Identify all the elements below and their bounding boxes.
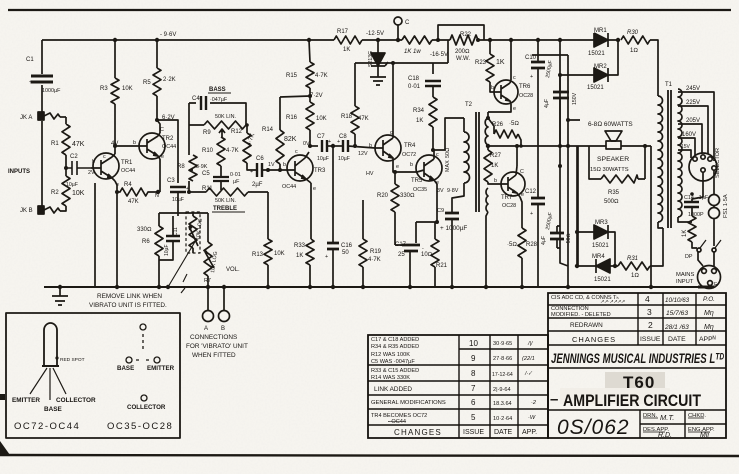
svg-text:MR3: MR3 bbox=[595, 220, 608, 226]
svg-text:1Ω: 1Ω bbox=[630, 48, 638, 54]
svg-text:6: 6 bbox=[471, 398, 476, 407]
svg-text:- 9·6V: - 9·6V bbox=[160, 32, 176, 38]
svg-text:10µF: 10µF bbox=[317, 156, 329, 162]
svg-text:TR2: TR2 bbox=[162, 136, 174, 142]
transformer T2 core bbox=[476, 112, 479, 212]
svg-text:C: C bbox=[405, 20, 410, 26]
capacitor 4uF 150V upper bbox=[553, 92, 569, 98]
capacitor 4uF 150V lower bbox=[550, 233, 564, 239]
svg-text:500Ω: 500Ω bbox=[604, 199, 619, 205]
svg-text:15V: 15V bbox=[681, 144, 691, 150]
svg-text:50Ω: 50Ω bbox=[445, 148, 451, 158]
svg-text:EMITTER: EMITTER bbox=[12, 397, 40, 404]
svg-text:1K: 1K bbox=[682, 230, 688, 237]
capacitor C5 0.01uF bbox=[213, 177, 229, 181]
svg-text:-12·5V: -12·5V bbox=[366, 31, 384, 37]
svg-text:LINK ADDED: LINK ADDED bbox=[374, 386, 412, 393]
resistor R18 47K bbox=[351, 63, 359, 146]
resistor R1 47K bbox=[62, 117, 70, 168]
svg-text:R14 WAS 330K: R14 WAS 330K bbox=[371, 375, 410, 381]
svg-text:M.T.: M.T. bbox=[660, 413, 674, 422]
svg-text:330Ω: 330Ω bbox=[137, 227, 152, 233]
svg-text:R12 WAS 100K: R12 WAS 100K bbox=[371, 352, 410, 358]
svg-text:ISSUE: ISSUE bbox=[463, 429, 484, 436]
wire: TR5 emitter link to C17/R21 bbox=[416, 222, 437, 243]
svg-text:+: + bbox=[530, 74, 533, 80]
wire: speaker feed bbox=[568, 120, 651, 287]
resistor R16 10K bbox=[306, 96, 314, 146]
svg-text:10K: 10K bbox=[72, 190, 85, 197]
svg-text:b: b bbox=[283, 162, 286, 168]
ground symbol bbox=[52, 287, 68, 305]
potentiometer 10K LOG vibrato (dashed) bbox=[186, 212, 200, 253]
svg-text:OC28: OC28 bbox=[502, 203, 516, 209]
svg-text:e: e bbox=[521, 192, 524, 198]
mains input connector bbox=[698, 266, 721, 289]
svg-text:47K: 47K bbox=[72, 141, 85, 148]
svg-text:MR4: MR4 bbox=[592, 254, 605, 260]
svg-text:50K LIN.: 50K LIN. bbox=[215, 198, 236, 204]
svg-text:JENNINGS MUSICAL INDUSTRIES Lᵀ: JENNINGS MUSICAL INDUSTRIES Lᵀᴰ bbox=[551, 351, 724, 366]
svg-text:27·8·66: 27·8·66 bbox=[493, 356, 512, 362]
svg-text:MR2: MR2 bbox=[594, 64, 607, 70]
resistor R4 47K horizontal bbox=[117, 188, 158, 196]
resistor R34 1K bbox=[429, 97, 437, 150]
svg-text:GENERAL MODIFICATIONS: GENERAL MODIFICATIONS bbox=[371, 400, 446, 406]
wire: selector wiper to C14 bbox=[692, 172, 703, 202]
svg-text:c: c bbox=[513, 75, 516, 81]
svg-text:TR3: TR3 bbox=[314, 168, 326, 174]
corner mark bbox=[0, 441, 10, 455]
svg-text:3: 3 bbox=[647, 307, 652, 317]
svg-text:Mƞ: Mƞ bbox=[704, 310, 714, 317]
svg-text:R8: R8 bbox=[177, 164, 185, 170]
svg-text:TR6: TR6 bbox=[519, 84, 531, 90]
svg-text:P.O.: P.O. bbox=[703, 296, 715, 303]
svg-text:CHANGES: CHANGES bbox=[394, 428, 442, 437]
svg-text:MODIFIED. - DELETED: MODIFIED. - DELETED bbox=[551, 312, 611, 318]
title block right bbox=[548, 293, 726, 438]
svg-text:REMOVE LINK WHEN: REMOVE LINK WHEN bbox=[97, 293, 162, 300]
svg-text:18.3.64: 18.3.64 bbox=[493, 401, 512, 407]
svg-text:10µF: 10µF bbox=[164, 245, 170, 257]
svg-text:OC35-OC28: OC35-OC28 bbox=[107, 421, 173, 432]
svg-text:·1µF: ·1µF bbox=[697, 195, 709, 201]
svg-text:C1: C1 bbox=[26, 57, 34, 63]
svg-text:5: 5 bbox=[471, 413, 476, 422]
svg-text:245V: 245V bbox=[686, 86, 700, 92]
svg-text:e: e bbox=[116, 182, 119, 188]
capacitor C12 2500uF bbox=[531, 198, 545, 204]
svg-text:15021: 15021 bbox=[594, 277, 611, 283]
wire: speaker line bbox=[578, 145, 651, 147]
svg-text:e: e bbox=[161, 154, 164, 160]
node junction R1/R2 bbox=[64, 166, 68, 170]
svg-text:TR7: TR7 bbox=[501, 195, 513, 201]
resistor R31 1ohm bbox=[618, 228, 663, 270]
svg-text:c: c bbox=[103, 154, 106, 160]
svg-text:R11: R11 bbox=[202, 186, 213, 192]
svg-text:1K: 1K bbox=[296, 253, 303, 259]
resistor R8 3.9K bbox=[189, 155, 197, 181]
svg-text:·5Ω: ·5Ω bbox=[509, 121, 519, 127]
svg-text:R34 & R35 ADDED: R34 & R35 ADDED bbox=[371, 344, 419, 350]
svg-text:c: c bbox=[436, 152, 439, 158]
transistor TR3 OC44 bbox=[287, 155, 313, 181]
capacitor C18 0.01 bbox=[425, 81, 441, 86]
capacitor C16 50 bbox=[327, 243, 339, 249]
resistor 1K mains bbox=[688, 216, 697, 248]
svg-text:DP: DP bbox=[685, 254, 693, 260]
capacitor C14 .1uF bbox=[684, 202, 699, 207]
svg-text:10K: 10K bbox=[122, 86, 133, 92]
svg-text:FOR 'VIBRATO' UNIT: FOR 'VIBRATO' UNIT bbox=[186, 343, 248, 350]
wire: lower-left network top bus bbox=[159, 213, 208, 242]
svg-text:JK B: JK B bbox=[20, 208, 33, 214]
svg-text:1K: 1K bbox=[343, 47, 350, 53]
resistor R5 2.2K bbox=[153, 40, 161, 120]
selector switch bbox=[689, 153, 717, 181]
svg-text:TREBLE: TREBLE bbox=[213, 206, 237, 212]
resistor R22 200ohm bbox=[450, 35, 478, 45]
svg-text:VIBRATO UNIT IS FITTED.: VIBRATO UNIT IS FITTED. bbox=[89, 302, 167, 309]
transformer T2 primary lower coil bbox=[486, 188, 488, 287]
sheet top border bbox=[8, 9, 731, 11]
svg-text:↗↗·↗↗↗↗: ↗↗·↗↗↗↗ bbox=[600, 299, 625, 304]
svg-text:C6: C6 bbox=[256, 156, 264, 162]
svg-text:4·7K: 4·7K bbox=[368, 257, 381, 263]
svg-text:4: 4 bbox=[645, 294, 650, 304]
svg-text:1K: 1K bbox=[416, 118, 423, 124]
resistor R15 4.7K bbox=[306, 40, 314, 96]
svg-text:b: b bbox=[369, 143, 372, 149]
svg-text:7: 7 bbox=[471, 384, 476, 393]
svg-text:OC44: OC44 bbox=[162, 144, 176, 150]
svg-text:15021: 15021 bbox=[592, 243, 609, 249]
svg-text:C11: C11 bbox=[173, 227, 179, 236]
svg-text:205V: 205V bbox=[686, 118, 700, 124]
svg-text:9·8V: 9·8V bbox=[447, 188, 459, 194]
svg-text:c: c bbox=[295, 149, 298, 155]
svg-text:COLLECTOR: COLLECTOR bbox=[56, 397, 96, 404]
svg-text:1000P: 1000P bbox=[688, 212, 704, 218]
resistor R6 330ohm bbox=[155, 226, 163, 287]
svg-text:+: + bbox=[325, 254, 328, 260]
capacitor C11 10uF bbox=[166, 236, 180, 241]
svg-text:T2: T2 bbox=[465, 102, 473, 108]
svg-text:4V: 4V bbox=[111, 141, 118, 147]
transistor case outline OC72 bbox=[44, 323, 57, 366]
svg-text:150V: 150V bbox=[572, 92, 578, 105]
svg-text:2µF: 2µF bbox=[252, 182, 263, 188]
svg-text:DATE: DATE bbox=[494, 429, 512, 436]
resistor R21 10ohm bbox=[431, 222, 439, 287]
svg-text:T1: T1 bbox=[665, 82, 673, 88]
svg-text:R14: R14 bbox=[262, 127, 274, 133]
svg-text:+: + bbox=[530, 211, 533, 217]
switch DP bbox=[697, 248, 701, 252]
svg-text:CHANGES: CHANGES bbox=[572, 335, 616, 344]
svg-text:3·9K: 3·9K bbox=[196, 164, 208, 170]
svg-text:EMITTER: EMITTER bbox=[147, 365, 175, 372]
diode MR2 bbox=[560, 40, 618, 82]
svg-text:e: e bbox=[313, 186, 316, 192]
svg-text:R31: R31 bbox=[627, 256, 638, 262]
svg-text:10·2·64: 10·2·64 bbox=[493, 416, 512, 422]
svg-text:1V: 1V bbox=[268, 162, 275, 168]
svg-text:10K: 10K bbox=[316, 116, 327, 122]
svg-text:B: B bbox=[221, 326, 225, 332]
svg-text:2V: 2V bbox=[88, 170, 95, 176]
svg-text:R18: R18 bbox=[341, 114, 353, 120]
svg-text:c: c bbox=[390, 130, 393, 136]
svg-text:C: C bbox=[520, 169, 524, 175]
svg-text:C4: C4 bbox=[192, 96, 200, 102]
svg-text:R26: R26 bbox=[492, 122, 504, 128]
transistor TR1 OC44 bbox=[93, 153, 119, 179]
svg-text:+: + bbox=[250, 169, 253, 175]
svg-text:28/1 /63: 28/1 /63 bbox=[664, 324, 689, 331]
svg-text:Mƞ: Mƞ bbox=[704, 324, 714, 331]
svg-text:200Ω: 200Ω bbox=[455, 49, 470, 55]
transformer T1 core bbox=[668, 90, 671, 228]
wire: TR1 collector up to R3, and to TR2 base bbox=[115, 104, 139, 154]
svg-text:R5: R5 bbox=[143, 80, 151, 86]
svg-text:R19: R19 bbox=[370, 249, 382, 255]
wire: ground rail bbox=[44, 286, 708, 288]
ground under zener bbox=[370, 77, 386, 85]
svg-text:TR1: TR1 bbox=[121, 160, 133, 166]
svg-text:DATE: DATE bbox=[668, 336, 686, 343]
svg-text:6·2V: 6·2V bbox=[162, 115, 175, 121]
capacitor C7 10uF bbox=[322, 140, 327, 152]
transformer T1 primary coil bbox=[658, 96, 663, 222]
terminal B bbox=[223, 287, 225, 311]
svg-text:INPUTS: INPUTS bbox=[8, 169, 30, 175]
zener diode 12.5V bbox=[371, 40, 388, 77]
svg-text:0S/062: 0S/062 bbox=[557, 416, 630, 439]
svg-text:b: b bbox=[133, 140, 136, 146]
svg-text:R3: R3 bbox=[100, 86, 108, 92]
leads bbox=[30, 368, 66, 400]
svg-text:1K: 1K bbox=[491, 163, 498, 169]
svg-text:15Ω 30WATTS: 15Ω 30WATTS bbox=[590, 167, 629, 173]
capacitor C8 10uF bbox=[343, 140, 348, 152]
svg-text:· OC44: · OC44 bbox=[388, 419, 406, 425]
svg-text:30·9·65: 30·9·65 bbox=[493, 341, 512, 347]
wire: TR7 emitter to R28 bbox=[520, 197, 522, 228]
svg-text:R12: R12 bbox=[231, 129, 243, 135]
svg-text:1K 1w: 1K 1w bbox=[404, 49, 421, 55]
svg-text:VOL.: VOL. bbox=[226, 267, 240, 273]
resistor R20 330ohm bbox=[391, 184, 399, 245]
svg-text:A: A bbox=[204, 326, 208, 332]
pinout view OC35 bbox=[140, 324, 146, 330]
sheet bottom border bbox=[0, 455, 739, 456]
svg-text:R13: R13 bbox=[252, 252, 264, 258]
svg-text:3V: 3V bbox=[437, 188, 444, 194]
wire: tone stack left feed bbox=[189, 103, 246, 192]
resistor R14 82K bbox=[276, 130, 284, 170]
svg-text:9: 9 bbox=[471, 354, 476, 363]
wire: TR2 emitter down to N node bbox=[159, 159, 161, 192]
resistor R7 10K LOG VOL bbox=[204, 242, 214, 287]
svg-text:C5: C5 bbox=[202, 171, 210, 177]
svg-text:µF: µF bbox=[233, 179, 240, 185]
svg-text:50: 50 bbox=[342, 250, 349, 256]
changes table left bbox=[368, 335, 548, 438]
svg-text:15021: 15021 bbox=[587, 85, 604, 91]
svg-text:APP.: APP. bbox=[522, 429, 537, 436]
wire: -9.6V top rail bbox=[42, 40, 658, 96]
svg-text:OC44: OC44 bbox=[121, 168, 135, 174]
svg-text:10/10/63: 10/10/63 bbox=[665, 297, 690, 304]
svg-text:R2: R2 bbox=[51, 190, 59, 196]
svg-text:R16: R16 bbox=[286, 115, 298, 121]
svg-text:6-8Ω 60WATTS: 6-8Ω 60WATTS bbox=[588, 121, 633, 128]
svg-text:C17: C17 bbox=[395, 242, 407, 248]
svg-text:-16·5V: -16·5V bbox=[430, 52, 448, 58]
svg-text:SELECTOR: SELECTOR bbox=[715, 148, 721, 178]
svg-text:(22/1: (22/1 bbox=[522, 356, 535, 362]
svg-text:b: b bbox=[92, 159, 95, 165]
svg-text:10Ω: 10Ω bbox=[421, 252, 433, 258]
svg-text:15/7/63: 15/7/63 bbox=[666, 310, 688, 317]
svg-text:R23: R23 bbox=[475, 60, 487, 66]
svg-text:CONNECTIONS: CONNECTIONS bbox=[190, 334, 237, 341]
svg-text:JK A: JK A bbox=[20, 115, 32, 121]
svg-text:MAINS: MAINS bbox=[676, 272, 694, 278]
svg-text:b: b bbox=[410, 162, 413, 168]
svg-text:+: + bbox=[337, 139, 340, 145]
svg-text:2·2K: 2·2K bbox=[163, 77, 176, 83]
wire: center tap to output line bbox=[488, 145, 578, 147]
svg-text:–: – bbox=[550, 391, 558, 408]
svg-text:C2: C2 bbox=[70, 154, 78, 160]
resistor R17 1K bbox=[334, 36, 362, 44]
wire: MR3 branch bbox=[577, 146, 615, 266]
svg-text:·50Ω: ·50Ω bbox=[566, 234, 572, 245]
svg-text:R28: R28 bbox=[526, 242, 538, 248]
svg-text:WHEN FITTED: WHEN FITTED bbox=[192, 352, 236, 359]
capacitor C2 10uF bbox=[66, 161, 91, 175]
svg-text:1K: 1K bbox=[496, 59, 505, 66]
resistor R26 .5ohm bbox=[488, 118, 521, 146]
wire: MR4 row bbox=[577, 265, 618, 267]
svg-text:TR5: TR5 bbox=[411, 178, 423, 184]
resistor R35 500ohm bbox=[589, 146, 645, 183]
svg-text:ISSUE: ISSUE bbox=[640, 336, 661, 343]
svg-text:10µF: 10µF bbox=[338, 156, 350, 162]
capacitor C10 2500uF bbox=[531, 62, 545, 68]
svg-text:C14: C14 bbox=[684, 195, 694, 201]
svg-text:10µF: 10µF bbox=[66, 182, 78, 188]
svg-text:10K: 10K bbox=[274, 251, 285, 257]
speaker horn symbol bbox=[605, 131, 622, 141]
capacitor C17 25 bbox=[402, 245, 420, 251]
svg-text:OC72: OC72 bbox=[402, 152, 416, 158]
svg-text:R21: R21 bbox=[436, 263, 448, 269]
pinout box frame bbox=[6, 313, 180, 438]
svg-text:BASE: BASE bbox=[117, 365, 134, 372]
svg-text:10: 10 bbox=[469, 339, 478, 348]
svg-text:12V: 12V bbox=[358, 151, 368, 157]
svg-text:C8: C8 bbox=[339, 134, 347, 140]
capacitor C3 10uF bbox=[170, 187, 186, 192]
svg-text:C17 & C18 ADDED: C17 & C18 ADDED bbox=[371, 337, 419, 343]
svg-text:REDRAWN: REDRAWN bbox=[570, 322, 603, 329]
svg-text:N: N bbox=[155, 193, 159, 199]
svg-text:R33: R33 bbox=[294, 243, 306, 249]
svg-text:0·01: 0·01 bbox=[230, 172, 241, 178]
svg-text:OC44: OC44 bbox=[282, 184, 296, 190]
capacitor C4 .047uF bbox=[201, 96, 206, 110]
potentiometer R11 50K TREBLE bbox=[189, 188, 268, 196]
capacitor C1 1000uF bbox=[31, 76, 53, 82]
transistor TR5 OC35 bbox=[416, 155, 442, 181]
resistor R30 bbox=[621, 36, 650, 44]
svg-text:HV: HV bbox=[366, 171, 374, 177]
svg-text:FS1 1·5A: FS1 1·5A bbox=[723, 194, 729, 218]
resistor R33 1K bbox=[306, 239, 314, 287]
svg-text:C3: C3 bbox=[167, 178, 175, 184]
svg-text:-: - bbox=[422, 246, 424, 252]
svg-text:4µF: 4µF bbox=[541, 236, 547, 245]
resistor R3 10K bbox=[111, 40, 119, 104]
jack JKB bbox=[38, 206, 44, 214]
svg-text:RED SPOT: RED SPOT bbox=[60, 357, 85, 363]
resistor R10 4.7K bbox=[217, 137, 225, 174]
svg-text:R4: R4 bbox=[124, 182, 132, 188]
svg-text:OC28: OC28 bbox=[519, 93, 533, 99]
svg-text:R7: R7 bbox=[204, 278, 211, 284]
resistor 1K 1W bbox=[402, 36, 432, 44]
resistor R28 .5ohm bbox=[518, 228, 526, 287]
svg-text:+: + bbox=[328, 139, 331, 145]
svg-text:W.W.: W.W. bbox=[456, 56, 470, 62]
wire: left drop from rail to C1 and jacks bbox=[41, 40, 43, 206]
svg-text:R6: R6 bbox=[142, 239, 150, 245]
svg-text:SPEAKER: SPEAKER bbox=[597, 156, 629, 163]
svg-text:0V: 0V bbox=[303, 141, 310, 147]
svg-text:R33 & C15 ADDED: R33 & C15 ADDED bbox=[371, 368, 419, 374]
diode MR3 bbox=[594, 225, 608, 239]
svg-text:1Ω: 1Ω bbox=[631, 273, 639, 279]
svg-text:C18: C18 bbox=[408, 76, 420, 82]
red spot dot bbox=[55, 356, 58, 359]
svg-text:e: e bbox=[396, 164, 399, 170]
capacitor C9 1000uF bbox=[445, 213, 459, 219]
svg-text:+: + bbox=[29, 80, 33, 86]
wire: vertical x95 to rail bbox=[94, 183, 96, 287]
svg-text:2|-9-64: 2|-9-64 bbox=[493, 387, 511, 393]
svg-text:b: b bbox=[491, 85, 494, 91]
wire: TR4 emitter to HV node and TR5 base bbox=[393, 162, 417, 184]
svg-text:OC72-OC44: OC72-OC44 bbox=[14, 421, 80, 432]
svg-text:MR1: MR1 bbox=[594, 28, 607, 34]
svg-text:4·7K: 4·7K bbox=[226, 148, 239, 154]
diode MR4 bbox=[596, 259, 610, 273]
svg-text:R34: R34 bbox=[413, 108, 425, 114]
potentiometer R9 50K BASS bbox=[204, 121, 246, 137]
wire: TR5 emitter to C9 bbox=[437, 184, 464, 222]
resistor R2 10K bbox=[60, 168, 70, 211]
svg-text:10µF: 10µF bbox=[172, 197, 184, 203]
svg-text:R9: R9 bbox=[203, 130, 211, 136]
transformer T2 secondary coil bbox=[464, 118, 470, 185]
terminal A bbox=[207, 287, 209, 311]
svg-text:4µF: 4µF bbox=[544, 99, 550, 108]
